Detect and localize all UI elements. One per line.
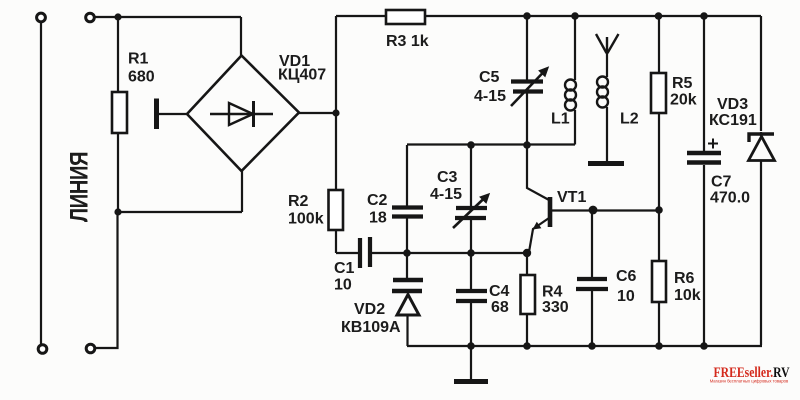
svg-text:C7: C7	[711, 174, 732, 191]
svg-text:КЦ407: КЦ407	[278, 67, 326, 84]
svg-text:C3: C3	[437, 169, 458, 186]
svg-text:68: 68	[491, 299, 509, 316]
svg-text:330: 330	[542, 299, 569, 316]
svg-text:470.0: 470.0	[710, 190, 750, 207]
svg-text:4-15: 4-15	[430, 186, 462, 203]
svg-text:10: 10	[334, 277, 352, 294]
svg-text:КС191: КС191	[709, 112, 757, 129]
svg-text:R3 1k: R3 1k	[386, 33, 429, 50]
svg-text:C2: C2	[367, 192, 388, 209]
svg-text:Магазин бесплатных цифровых то: Магазин бесплатных цифровых товаров	[710, 378, 789, 383]
svg-text:VD2: VD2	[354, 301, 385, 318]
svg-text:C6: C6	[616, 268, 637, 285]
svg-text:680: 680	[128, 69, 155, 86]
svg-text:КВ109А: КВ109А	[341, 319, 401, 336]
svg-text:R5: R5	[672, 75, 693, 92]
svg-text:C5: C5	[479, 69, 500, 86]
svg-text:R4: R4	[542, 284, 563, 301]
svg-text:10: 10	[617, 288, 635, 305]
svg-text:L1: L1	[551, 111, 570, 128]
svg-text:18: 18	[369, 210, 387, 227]
svg-text:R6: R6	[674, 270, 695, 287]
svg-text:VD3: VD3	[717, 96, 748, 113]
svg-text:10k: 10k	[674, 287, 701, 304]
svg-text:100k: 100k	[288, 211, 324, 228]
svg-text:VT1: VT1	[557, 189, 586, 206]
svg-text:C1: C1	[334, 260, 355, 277]
svg-text:20k: 20k	[670, 92, 697, 109]
svg-text:C4: C4	[489, 283, 510, 300]
svg-text:R2: R2	[288, 193, 309, 210]
svg-text:4-15: 4-15	[474, 88, 506, 105]
svg-text:ЛИНИЯ: ЛИНИЯ	[64, 152, 93, 222]
svg-text:L2: L2	[620, 111, 639, 128]
svg-text:R1: R1	[128, 51, 149, 68]
